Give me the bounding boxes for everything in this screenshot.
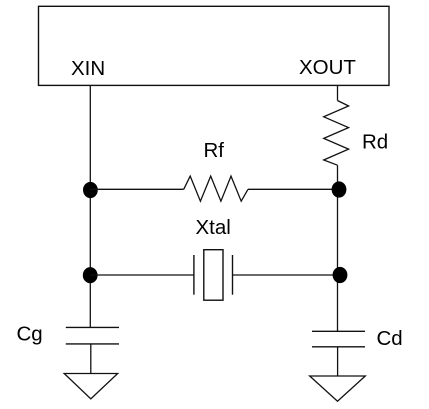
svg-text:XIN: XIN xyxy=(71,57,105,80)
svg-text:Rf: Rf xyxy=(204,139,225,162)
wire Cg to ground xyxy=(90,344,92,374)
pin label XIN xyxy=(71,57,105,80)
svg-text:Cd: Cd xyxy=(377,327,403,350)
wire XIN vertical xyxy=(89,85,91,327)
label Rd xyxy=(362,131,388,154)
label Cg xyxy=(17,322,43,345)
wire node C to crystal xyxy=(90,274,194,276)
label Rf xyxy=(204,139,225,162)
resistor Rf xyxy=(184,176,248,201)
resistor Rd xyxy=(324,101,349,166)
ground left xyxy=(64,374,118,399)
svg-text:Rd: Rd xyxy=(362,131,388,154)
svg-text:Cg: Cg xyxy=(17,322,43,345)
label Xtal xyxy=(196,216,231,239)
wire Rf to node B xyxy=(248,188,338,190)
wire XOUT stub xyxy=(337,85,339,100)
label Cd xyxy=(377,327,403,350)
node C junction dot xyxy=(83,267,98,283)
wire XOUT vertical lower xyxy=(337,165,339,331)
crystal Xtal xyxy=(194,250,233,301)
capacitor Cg xyxy=(66,327,119,344)
IC box U1 xyxy=(39,6,390,85)
wire Cd to ground xyxy=(337,347,339,376)
wire node A to Rf xyxy=(90,188,183,190)
node D junction dot xyxy=(333,267,348,283)
node B junction dot xyxy=(332,181,347,197)
svg-text:Xtal: Xtal xyxy=(196,216,231,239)
wire crystal to node D xyxy=(233,274,341,276)
capacitor Cd xyxy=(312,331,365,347)
svg-text:XOUT: XOUT xyxy=(299,56,356,79)
node A junction dot xyxy=(83,182,98,198)
pin label XOUT xyxy=(299,56,356,79)
ground right xyxy=(310,376,366,401)
